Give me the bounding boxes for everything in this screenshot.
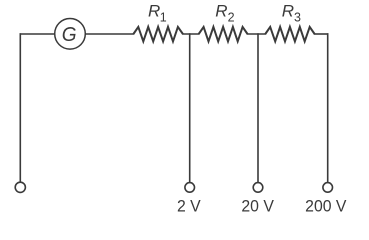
resistor R2 zigzag (199, 27, 248, 42)
wire R2 to R3 through node 20V junction (248, 33, 266, 35)
wire top-left to galvanometer (20, 33, 54, 35)
svg-text:200 V: 200 V (305, 197, 346, 216)
wire vertical to 2V terminal (189, 34, 191, 183)
terminal common (open circle, left) (15, 182, 25, 192)
terminal 20V (open circle) (253, 183, 263, 193)
terminal 2V (open circle) (185, 183, 195, 193)
svg-text:G: G (62, 24, 77, 47)
wire left vertical (19, 34, 21, 182)
resistor R1 zigzag (133, 27, 183, 42)
galvanometer U1 circle (55, 19, 86, 50)
wire galvanometer to R1 (86, 33, 134, 35)
terminal 200V (open circle) (323, 183, 333, 193)
wire vertical to 200V terminal (327, 34, 329, 183)
wire R3 to top-right corner (315, 33, 328, 35)
resistor R3 zigzag (265, 27, 314, 42)
svg-text:2 V: 2 V (177, 197, 201, 216)
wire R1 to R2 through node 2V junction (183, 33, 199, 35)
wire vertical to 20V terminal (257, 34, 259, 183)
svg-text:20 V: 20 V (241, 197, 274, 216)
